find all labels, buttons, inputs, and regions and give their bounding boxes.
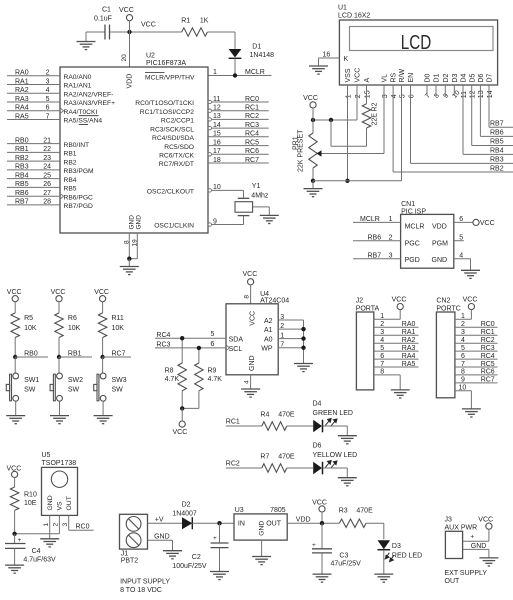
svg-text:4.7K: 4.7K — [165, 376, 180, 383]
svg-text:9: 9 — [461, 377, 465, 384]
svg-text:GND: GND — [136, 215, 143, 230]
svg-text:RC1: RC1 — [226, 418, 240, 425]
svg-text:RB2: RB2 — [490, 165, 504, 172]
node VDD junction — [320, 521, 324, 525]
svg-text:8 TO 18 VDC: 8 TO 18 VDC — [120, 587, 162, 594]
svg-text:GND: GND — [432, 257, 448, 264]
svg-text:9: 9 — [213, 218, 217, 225]
svg-text:RC2: RC2 — [245, 113, 259, 120]
svg-text:RA5: RA5 — [15, 113, 29, 120]
pin 11 RC0 wire — [208, 101, 269, 103]
node R8/R9 join — [180, 406, 184, 410]
svg-text:MCLR: MCLR — [360, 216, 380, 223]
switch SW2 — [58, 357, 60, 373]
svg-text:A: A — [364, 78, 371, 83]
svg-text:VCC: VCC — [119, 7, 134, 14]
svg-text:D1: D1 — [252, 43, 261, 50]
svg-text:R2: R2 — [372, 102, 379, 111]
svg-text:RC4: RC4 — [481, 353, 495, 360]
svg-text:7805: 7805 — [270, 507, 286, 514]
pin 12 RC1 wire — [208, 110, 269, 112]
capacitor C4 4.7uF/63V — [14, 534, 16, 544]
svg-text:VCC: VCC — [249, 311, 256, 326]
ground (SW2) — [50, 416, 69, 424]
svg-text:VDD: VDD — [126, 74, 133, 89]
svg-text:16: 16 — [323, 52, 331, 59]
wire LCD EN pin6 to RB3 — [410, 85, 412, 163]
svg-text:R9: R9 — [208, 367, 217, 374]
wire A2/A1/A0/WP to ground — [303, 320, 305, 364]
pin 3 PGD wire — [353, 258, 401, 260]
pin 4 RA2 wire — [374, 342, 419, 344]
pin 13 RC2 wire — [208, 118, 269, 120]
ground (C3) — [313, 574, 332, 582]
IC U5 TSOP1738 body — [42, 467, 78, 515]
svg-text:RB6/PGC: RB6/PGC — [64, 194, 94, 201]
svg-text:GND: GND — [47, 495, 54, 510]
svg-text:RA3: RA3 — [402, 345, 416, 352]
wire LED to ground — [323, 467, 348, 469]
pin 27 RB6 wire — [7, 195, 60, 197]
ground (crystal) — [260, 215, 279, 223]
svg-text:VCC: VCC — [173, 429, 188, 436]
pin 5 PGM stub — [454, 240, 464, 242]
svg-text:RC7: RC7 — [245, 157, 259, 164]
LED D6 YELLOW LED — [313, 462, 322, 475]
svg-text:7: 7 — [461, 361, 465, 368]
svg-text:2: 2 — [46, 70, 50, 77]
svg-text:22: 22 — [43, 146, 51, 153]
resistor R11 10K — [102, 302, 104, 313]
svg-text:12: 12 — [470, 90, 477, 98]
power VCC (switch col 1) — [12, 296, 18, 302]
pin 8 RC6 wire — [455, 374, 498, 376]
ground (U5) — [40, 539, 59, 547]
node MCLR-D1 junction — [233, 73, 237, 77]
wire net RC2 — [226, 467, 262, 469]
ground (U4) — [241, 389, 260, 397]
svg-text:VCC: VCC — [312, 499, 327, 506]
input marker RB6 — [61, 194, 64, 199]
wire D3 to ground — [383, 550, 385, 574]
pin 2 RA0 wire — [374, 326, 419, 328]
pin 7 RA5 wire — [7, 119, 60, 121]
svg-text:INPUT SUPPLY: INPUT SUPPLY — [120, 579, 170, 586]
svg-text:PORTA: PORTA — [356, 305, 380, 312]
resistor R6 10K — [58, 302, 60, 313]
svg-text:PIC ISP: PIC ISP — [401, 208, 426, 215]
svg-text:RC6: RC6 — [481, 369, 495, 376]
svg-text:GND: GND — [471, 543, 487, 550]
svg-text:D3: D3 — [452, 73, 459, 82]
svg-text:3: 3 — [461, 329, 465, 336]
pin 6 SCL wire — [155, 347, 226, 349]
svg-text:C2: C2 — [192, 554, 201, 561]
svg-text:13: 13 — [478, 90, 485, 98]
svg-text:7: 7 — [424, 92, 432, 99]
connector J2 PORTA body — [356, 312, 373, 390]
pin 6 VDD wire to VCC — [454, 221, 473, 223]
wire net RC1 — [226, 425, 262, 427]
power VCC (U4) — [248, 279, 254, 285]
svg-text:RB5: RB5 — [15, 181, 29, 188]
svg-text:RB7: RB7 — [368, 253, 382, 260]
IC U3 7805 body — [234, 514, 287, 540]
svg-text:SW: SW — [68, 387, 80, 394]
svg-text:2: 2 — [280, 323, 284, 330]
svg-text:8: 8 — [461, 369, 465, 376]
stub D3 pin10 — [453, 85, 455, 96]
svg-text:6: 6 — [46, 105, 50, 112]
svg-text:RC0: RC0 — [245, 96, 259, 103]
resistor R2 22E — [362, 104, 370, 128]
svg-text:RC5: RC5 — [245, 139, 259, 146]
wire R3 to D3 — [366, 522, 384, 524]
svg-text:D2: D2 — [182, 501, 191, 508]
svg-text:RA3: RA3 — [15, 96, 29, 103]
wire VCC pin8 — [250, 285, 252, 304]
svg-text:4.7K: 4.7K — [208, 376, 223, 383]
svg-text:RC1: RC1 — [481, 329, 495, 336]
svg-text:2: 2 — [355, 94, 362, 98]
wire to LED — [287, 425, 313, 427]
svg-text:VCC: VCC — [141, 22, 156, 29]
wire MCLR net — [208, 75, 272, 77]
svg-text:VCC: VCC — [463, 297, 478, 304]
svg-text:D4: D4 — [313, 401, 322, 408]
svg-text:RA4: RA4 — [402, 353, 416, 360]
svg-text:D4: D4 — [461, 73, 468, 82]
node C2 junction — [217, 521, 221, 525]
pin 14 RC3 wire — [208, 127, 269, 129]
svg-text:4: 4 — [46, 87, 50, 94]
crystal Y1 4Mhz — [243, 190, 245, 198]
wire LCD VCC pin2 — [356, 85, 358, 120]
wire SW2 to ground — [59, 401, 61, 415]
svg-text:10K: 10K — [112, 325, 125, 332]
svg-text:U5: U5 — [42, 452, 51, 459]
svg-text:23: 23 — [43, 155, 51, 162]
svg-text:1: 1 — [345, 94, 352, 98]
svg-text:RB7/PGD: RB7/PGD — [64, 203, 94, 210]
pin 28 RB7 wire — [7, 204, 60, 206]
wire R1 to D1 — [207, 31, 235, 33]
resistor R10 10E — [14, 477, 16, 487]
pin 18 RC7 wire — [208, 162, 269, 164]
wire LCD RS pin4 to RB2 — [392, 85, 394, 172]
svg-text:VS: VS — [56, 501, 63, 511]
svg-text:PBT2: PBT2 — [121, 557, 139, 564]
svg-text:3: 3 — [280, 314, 284, 321]
svg-text:SCL: SCL — [229, 346, 243, 353]
LED D3 RED LED — [378, 540, 391, 549]
svg-text:R1: R1 — [181, 18, 190, 25]
svg-text:RA3/AN3/VREF+: RA3/AN3/VREF+ — [64, 100, 116, 107]
pin 1 wire to VCC — [455, 318, 472, 320]
wire VS supply rail — [15, 533, 60, 535]
svg-text:D5: D5 — [469, 73, 476, 82]
node RB0 junction — [13, 355, 17, 359]
svg-text:SW2: SW2 — [68, 377, 83, 384]
svg-text:4: 4 — [391, 94, 398, 98]
svg-text:PGM: PGM — [432, 241, 448, 248]
power VCC (top) — [126, 15, 132, 21]
svg-text:RC4: RC4 — [245, 131, 259, 138]
svg-text:D6: D6 — [478, 73, 485, 82]
svg-text:10: 10 — [459, 385, 467, 392]
switch SW1 — [14, 357, 16, 373]
svg-text:R8: R8 — [165, 367, 174, 374]
overline T0CKI — [79, 115, 99, 117]
svg-text:EXT SUPPLY: EXT SUPPLY — [445, 570, 488, 577]
svg-text:RB1: RB1 — [15, 146, 29, 153]
svg-text:15: 15 — [364, 90, 371, 98]
svg-text:SW3: SW3 — [112, 377, 127, 384]
pin 6 RC4 wire — [455, 358, 498, 360]
svg-text:RB6: RB6 — [490, 130, 504, 137]
svg-text:14: 14 — [213, 122, 221, 129]
svg-text:VCC: VCC — [7, 289, 22, 296]
svg-text:+: + — [312, 542, 316, 549]
input marker RA4 — [61, 108, 64, 113]
svg-text:3: 3 — [389, 253, 393, 260]
node RC7 junction — [100, 355, 104, 359]
node R10/C4 junction — [12, 532, 16, 536]
ground (PR1) — [312, 181, 314, 189]
svg-text:470E: 470E — [278, 412, 295, 419]
svg-text:R3: R3 — [339, 508, 348, 515]
pin 5 RA3 wire — [374, 350, 419, 352]
svg-text:RC5/SDO: RC5/SDO — [164, 144, 194, 151]
svg-text:21: 21 — [43, 137, 51, 144]
svg-text:1: 1 — [280, 332, 284, 339]
wire LCD D4 pin11 to RB4 — [462, 85, 464, 154]
svg-text:OSC1/CLKIN: OSC1/CLKIN — [154, 223, 194, 230]
svg-text:OSC2/CLKOUT: OSC2/CLKOUT — [147, 189, 194, 196]
svg-text:6: 6 — [461, 353, 465, 360]
svg-text:1: 1 — [380, 313, 384, 320]
node VCC junction — [127, 30, 131, 34]
pins 8,19 GND stubs — [128, 233, 130, 259]
svg-text:RC4: RC4 — [156, 332, 170, 339]
svg-text:100uF/25V: 100uF/25V — [172, 563, 207, 570]
overline SS — [79, 124, 88, 126]
svg-text:C4: C4 — [32, 548, 41, 555]
svg-text:15: 15 — [213, 131, 221, 138]
svg-text:+: + — [18, 537, 22, 544]
resistor R5 10K — [14, 302, 16, 313]
svg-text:RC1/T1OSI/CCP2: RC1/T1OSI/CCP2 — [140, 109, 195, 116]
svg-text:22E: 22E — [372, 113, 379, 126]
svg-text:RC6: RC6 — [245, 148, 259, 155]
pin 2 RA0 wire — [7, 75, 60, 77]
svg-text:Y1: Y1 — [252, 183, 261, 190]
svg-text:5: 5 — [380, 345, 384, 352]
svg-text:RC2/CCP1: RC2/CCP1 — [161, 118, 194, 125]
pin 26 RB5 wire — [7, 186, 60, 188]
svg-text:20: 20 — [121, 54, 128, 62]
svg-text:RC6/TX/CK: RC6/TX/CK — [159, 153, 194, 160]
svg-text:RB4: RB4 — [64, 177, 77, 184]
svg-text:U3: U3 — [235, 507, 244, 514]
ground (SW3) — [94, 416, 113, 424]
svg-text:RC3/SCK/SCL: RC3/SCK/SCL — [150, 126, 194, 133]
svg-text:RB4: RB4 — [490, 148, 504, 155]
svg-text:CN1: CN1 — [401, 201, 415, 208]
wire backlight A pin15 — [366, 85, 368, 104]
svg-text:RA5/SS/AN4: RA5/SS/AN4 — [64, 118, 103, 125]
svg-text:VCC: VCC — [303, 95, 318, 102]
resistor R4 470E — [262, 422, 287, 430]
svg-text:RC0/T1OSO/T1CKI: RC0/T1OSO/T1CKI — [135, 100, 194, 107]
svg-text:EN: EN — [408, 73, 415, 83]
connector J1 PBT2 body — [120, 514, 148, 549]
svg-text:R10: R10 — [24, 492, 37, 499]
pin 2 A1 wire — [278, 328, 303, 330]
svg-text:SW: SW — [24, 387, 36, 394]
svg-text:RA4: RA4 — [15, 105, 29, 112]
pin 1 GND stub — [49, 515, 51, 538]
svg-text:RC4/SDI/SDA: RC4/SDI/SDA — [152, 135, 195, 142]
svg-text:D6: D6 — [313, 443, 322, 450]
ground (C1 bypass) — [86, 31, 105, 33]
IC U1 LCD 16X2 body — [339, 20, 497, 85]
svg-text:13: 13 — [213, 113, 221, 120]
svg-text:R/W: R/W — [399, 69, 406, 83]
svg-text:RB0/INT: RB0/INT — [64, 142, 90, 149]
pin 4 RC2 wire — [455, 342, 498, 344]
svg-text:12: 12 — [213, 105, 221, 112]
svg-text:MCLR: MCLR — [245, 69, 265, 76]
svg-text:1: 1 — [389, 216, 393, 223]
svg-text:11: 11 — [213, 96, 220, 103]
pin 10 OSC2/CLKOUT — [208, 189, 244, 191]
svg-text:8: 8 — [124, 240, 131, 244]
svg-text:RB0: RB0 — [15, 137, 29, 144]
svg-text:16: 16 — [213, 139, 221, 146]
capacitor C2 100uF/25V — [219, 523, 221, 543]
svg-text:GND: GND — [258, 521, 265, 536]
svg-text:LCD: LCD — [401, 31, 432, 54]
svg-text:6: 6 — [408, 94, 415, 98]
pin 5 RC3 wire — [455, 350, 498, 352]
svg-text:RA1: RA1 — [15, 78, 29, 85]
svg-text:28: 28 — [43, 199, 51, 206]
connector CN1 PIC ISP body — [401, 214, 454, 268]
svg-text:18: 18 — [213, 157, 221, 164]
svg-text:RB6: RB6 — [15, 190, 29, 197]
wire ground rail — [313, 180, 402, 182]
pin 3 RC1 wire — [455, 334, 498, 336]
stub D1 pin8 — [435, 85, 437, 96]
svg-text:RC3: RC3 — [481, 345, 495, 352]
svg-text:VCC: VCC — [392, 297, 407, 304]
ground (C4) — [5, 565, 24, 573]
svg-text:5: 5 — [399, 94, 406, 98]
svg-text:C3: C3 — [339, 553, 348, 560]
ground (U4 addr) — [294, 364, 313, 372]
svg-text:RC7: RC7 — [481, 377, 495, 384]
svg-text:+: + — [470, 534, 474, 541]
svg-text:4Mhz: 4Mhz — [251, 192, 269, 199]
pin 4 GND wire — [250, 375, 252, 389]
pin 5 RA3 wire — [7, 101, 60, 103]
ground (U3) — [252, 557, 271, 565]
capacitor C1 — [104, 25, 106, 40]
svg-text:RB7: RB7 — [490, 121, 504, 128]
capacitor C3 47uF/25V — [321, 523, 323, 549]
node RB1 junction — [57, 355, 61, 359]
svg-text:GND: GND — [154, 534, 170, 541]
pin 1 A0 wire — [278, 338, 303, 340]
svg-text:6: 6 — [380, 353, 384, 360]
ground (D4) — [338, 436, 357, 444]
svg-text:SDA: SDA — [229, 337, 244, 344]
wire LCD D7 pin14 to RB7 — [488, 85, 490, 127]
pin 22 RB1 wire — [7, 151, 60, 153]
svg-text:OUT: OUT — [66, 496, 73, 510]
svg-text:RS: RS — [391, 72, 398, 82]
svg-text:5: 5 — [459, 235, 463, 242]
pin 7 RA5 wire — [374, 366, 419, 368]
svg-text:PGC: PGC — [405, 241, 420, 248]
resistor R1 — [182, 28, 208, 36]
svg-text:RA0: RA0 — [15, 70, 29, 77]
svg-text:RA2: RA2 — [15, 87, 29, 94]
wire D2 to U3 IN — [192, 522, 234, 524]
svg-text:RA2/AN2/VREF-: RA2/AN2/VREF- — [64, 91, 114, 98]
pin 24 RB3 wire — [7, 169, 60, 171]
wire SW1 to ground — [15, 401, 17, 415]
svg-text:4.7uF/63V: 4.7uF/63V — [23, 557, 56, 564]
power VCC (switch col 2) — [56, 296, 62, 302]
svg-text:RA1: RA1 — [402, 329, 416, 336]
svg-text:RB1: RB1 — [68, 350, 82, 357]
svg-text:3: 3 — [62, 523, 69, 527]
svg-text:2: 2 — [53, 523, 60, 527]
pin GND wire — [463, 548, 489, 550]
svg-text:6: 6 — [210, 341, 214, 348]
resistor R3 470E — [339, 519, 366, 527]
svg-text:27: 27 — [43, 190, 51, 197]
ground (D6) — [338, 478, 357, 486]
svg-text:RC0: RC0 — [76, 523, 90, 530]
svg-text:YELLOW LED: YELLOW LED — [313, 452, 358, 459]
pin 2 RC0 wire — [455, 326, 498, 328]
wire LED to ground — [323, 425, 348, 427]
svg-text:10K: 10K — [24, 325, 37, 332]
ground (J3) — [479, 558, 498, 566]
svg-text:RC2: RC2 — [226, 460, 240, 467]
svg-text:47uF/25V: 47uF/25V — [331, 560, 362, 567]
svg-text:U2: U2 — [146, 53, 155, 60]
wire net RB0 — [15, 356, 48, 358]
svg-text:RA0: RA0 — [402, 321, 416, 328]
pin 4 RA2 wire — [7, 92, 60, 94]
pin 23 RB2 wire — [7, 160, 60, 162]
svg-text:MCLR/VPP/THV: MCLR/VPP/THV — [145, 75, 195, 82]
svg-text:RC7/RX/DT: RC7/RX/DT — [159, 161, 194, 168]
svg-text:3: 3 — [380, 329, 384, 336]
pin 7 RC5 wire — [455, 366, 498, 368]
svg-text:1: 1 — [43, 523, 50, 527]
diode D1 1N4148 — [229, 49, 242, 58]
svg-text:9: 9 — [442, 92, 450, 99]
svg-text:2: 2 — [389, 235, 393, 242]
switch SW3 — [102, 357, 104, 373]
resistor R7 470E — [262, 464, 287, 472]
svg-text:GND: GND — [128, 215, 135, 230]
